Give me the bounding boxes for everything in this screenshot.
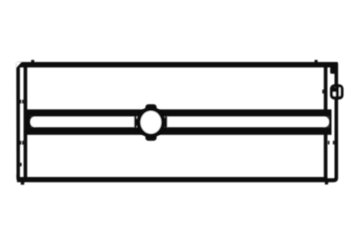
right outer vertical edge: [327, 63, 338, 182]
groove cap arc right of hole: [165, 115, 167, 129]
tick pair left lower: [20, 141, 22, 145]
top-right corner blob: [330, 62, 338, 74]
tick on left outer line lower: [20, 163, 22, 167]
oil hole bore ring: [136, 107, 165, 138]
left inner vertical line: [24, 65, 28, 180]
top edge line: [17, 62, 338, 67]
right inner vertical line: [324, 65, 328, 180]
bottom nub right: [325, 182, 328, 185]
tick pair left upper: [20, 100, 22, 104]
bottom nub left: [21, 182, 24, 185]
locating lug outline: [330, 84, 344, 99]
lug centre bar: [336, 85, 339, 99]
left outer vertical edge: [16, 63, 24, 182]
tick on right inner line: [322, 90, 324, 94]
tick pair right lower: [328, 141, 330, 145]
bottom edge line: [17, 177, 328, 182]
locating lug slot: [333, 87, 341, 96]
tick above top line left: [31, 60, 34, 63]
oil hole bore: [141, 111, 162, 134]
tick above top line right: [315, 60, 318, 63]
lug inner block: [333, 87, 337, 92]
groove cap arc left of hole: [134, 116, 136, 130]
oil hole bottom chamfer bump: [145, 133, 156, 140]
bearing wall band: [25, 109, 332, 134]
top-left corner chamfer cut: [16, 62, 22, 69]
oil hole top chamfer bump: [145, 104, 156, 111]
oil groove white channel: [30, 116, 329, 127]
